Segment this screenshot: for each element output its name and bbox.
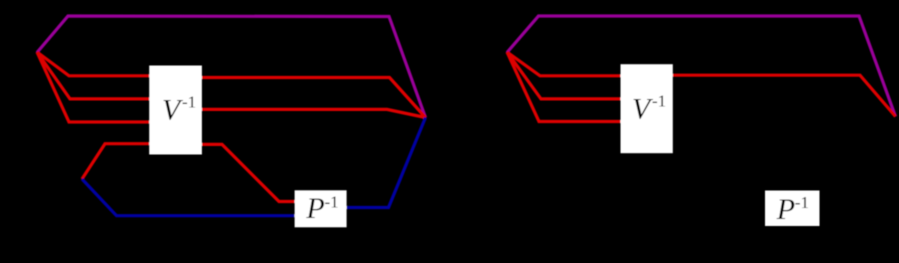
svg-text:P: P	[776, 193, 795, 226]
svg-text:-1: -1	[182, 93, 196, 112]
svg-text:-1: -1	[325, 192, 339, 211]
svg-text:-1: -1	[652, 92, 666, 111]
svg-text:-1: -1	[795, 193, 809, 212]
svg-text:P: P	[305, 192, 324, 225]
